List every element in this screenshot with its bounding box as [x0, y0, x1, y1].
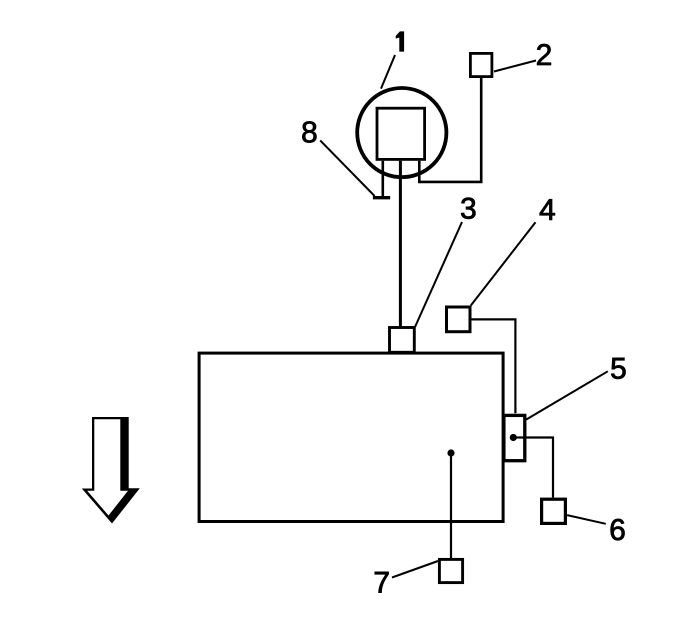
leader line 1 — [381, 55, 395, 89]
center pin wire from square in circle down to square 3 — [399, 161, 402, 327]
arrow white face — [87, 419, 128, 515]
square inside circle — [377, 108, 425, 159]
square 7 — [439, 559, 462, 582]
right leg wire from square in circle — [418, 161, 421, 183]
component 5 (connector on right edge) — [504, 415, 525, 460]
dot in component 5 — [510, 434, 517, 441]
square 2 — [470, 53, 492, 76]
label 4 — [540, 199, 555, 220]
leader line 5 — [526, 371, 608, 419]
leader line 4 — [471, 222, 536, 305]
leader line 2 — [494, 61, 536, 72]
square 6 — [542, 499, 566, 523]
wire from square 4 right to component 5 — [472, 319, 516, 413]
label 7 — [375, 572, 389, 593]
leader line 6 — [567, 515, 606, 524]
leader line 7 — [392, 561, 438, 578]
square 4 — [447, 307, 471, 332]
wire from square 2 down and left — [419, 78, 481, 182]
leader line 8 — [320, 140, 374, 196]
wire from dot down to square 7 — [450, 453, 452, 558]
label 6 — [611, 519, 625, 540]
left leg wire from square in circle — [381, 161, 384, 197]
circle (component 1 body) — [357, 88, 446, 177]
label 3 — [461, 198, 475, 219]
big rectangle (module) — [199, 353, 503, 521]
label 1 — [396, 31, 404, 51]
square 3 — [390, 328, 415, 353]
leader line 3 — [415, 222, 462, 327]
label 5 — [611, 358, 625, 379]
label 8 — [302, 121, 316, 142]
arrow (front-of-vehicle indicator) shadow silhouette — [82, 417, 140, 524]
dot in big rectangle — [447, 449, 454, 456]
label 2 — [537, 44, 551, 65]
tick mark (item 8 pointer target) — [373, 196, 390, 199]
wire from component 5 to square 6 — [513, 438, 553, 498]
